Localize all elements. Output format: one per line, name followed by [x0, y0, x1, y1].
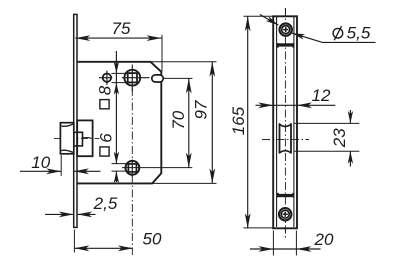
diameter 5,5 leader	[260, 15, 279, 26]
faceplate side view	[74, 14, 77, 227]
top screw hole	[280, 23, 292, 35]
svg-text:2,5: 2,5	[93, 194, 118, 213]
dimension 75 top	[75, 37, 161, 39]
dimension 165 plate height	[247, 16, 249, 228]
svg-text:97: 97	[191, 100, 210, 119]
svg-text:165: 165	[229, 106, 248, 135]
dimension 2,5 faceplate thickness	[45, 213, 74, 215]
cylinder pin hole small circle	[103, 74, 111, 82]
svg-text:75: 75	[112, 19, 131, 38]
70 dim bottom extension / hole centerline	[122, 167, 192, 169]
svg-text:50: 50	[143, 229, 162, 248]
faceplate inner edge lines	[276, 17, 278, 227]
dimension square-8	[115, 51, 117, 164]
dimension 10 latch protrusion	[20, 170, 61, 172]
bottom square hole 6mm	[128, 164, 136, 172]
spindle square hole 8mm	[128, 73, 137, 82]
svg-text:8: 8	[95, 85, 114, 95]
bottom screw hole	[279, 208, 291, 220]
latch housing box	[77, 120, 92, 156]
spindle hole big circle	[124, 70, 140, 86]
bottom spindle hole circle	[125, 161, 139, 175]
svg-text:6: 6	[96, 133, 115, 143]
latch stem box	[74, 132, 83, 146]
dimension 97 body height	[211, 62, 213, 184]
svg-text:10: 10	[31, 153, 50, 172]
dimension 50 bottom	[74, 247, 132, 249]
svg-text:12: 12	[312, 86, 331, 105]
lock body centerline vertical	[131, 88, 133, 255]
svg-text:5,5: 5,5	[347, 24, 371, 43]
latch head with bevels	[60, 123, 73, 154]
svg-text:23: 23	[330, 128, 349, 148]
faceplate latch centerline horizontal	[262, 138, 309, 140]
deadbolt slot on right edge	[152, 75, 163, 82]
centerline re-draw over plate	[284, 8, 286, 240]
diameter symbol	[333, 28, 343, 38]
dimension square-6	[112, 163, 130, 165]
dimension 12	[256, 104, 336, 106]
case dark bar top	[277, 43, 295, 46]
svg-text:70: 70	[169, 110, 188, 129]
dimension 23 latch cutout	[295, 122, 360, 124]
latch cutout with latch face	[280, 123, 292, 153]
dimension 70 hole spacing	[188, 78, 190, 167]
faceplate centerline vertical	[284, 8, 286, 240]
faceplate front outline	[273, 16, 297, 228]
latch centerline horizontal	[54, 137, 100, 139]
svg-text:20: 20	[314, 230, 334, 249]
lock body outline	[77, 62, 161, 184]
case dark bar bottom	[277, 194, 295, 197]
dimension 20 plate width	[250, 248, 321, 250]
